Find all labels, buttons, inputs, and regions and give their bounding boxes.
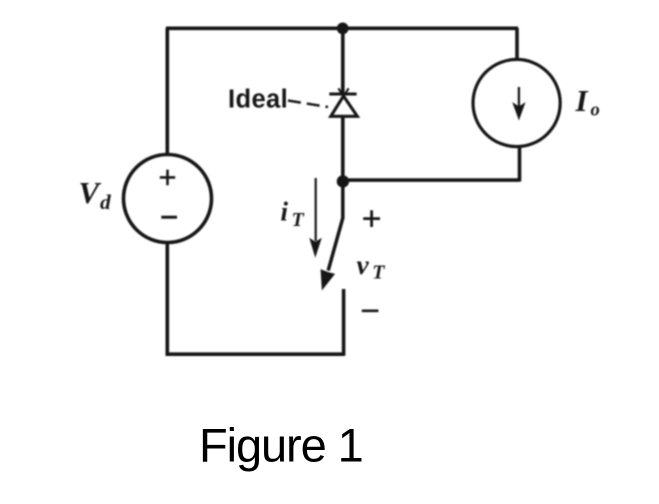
svg-text:T: T (372, 261, 385, 283)
minus sign inside V_d (161, 216, 177, 219)
wire left vertical upper (166, 28, 170, 156)
node junction dot middle (337, 175, 349, 187)
leader dashes from Ideal label to diode (288, 101, 328, 108)
svg-text:Figure 1: Figure 1 (199, 419, 363, 472)
svg-text:o: o (591, 101, 600, 121)
minus sign for v_T (362, 309, 379, 312)
svg-text:d: d (100, 190, 112, 214)
wire current source lower lead (518, 147, 522, 182)
wire top horizontal (166, 26, 518, 30)
i_T current arrow (310, 178, 320, 256)
current source I_o circle (473, 59, 560, 146)
svg-text:V: V (79, 175, 102, 210)
diode D1 triangle (331, 96, 358, 116)
diode D1 cathode bar (329, 93, 356, 96)
wire diode branch upper (341, 28, 345, 93)
switch blade with arrow (328, 185, 343, 271)
switch blade arrowhead (321, 270, 334, 289)
svg-text:i: i (281, 197, 289, 227)
wire left vertical lower (166, 241, 170, 356)
plus sign for v_T (363, 210, 380, 227)
svg-text:Ideal: Ideal (228, 86, 288, 114)
plus sign inside V_d (160, 170, 175, 186)
wire current source upper lead (515, 28, 519, 60)
svg-text:v: v (357, 249, 370, 280)
svg-text:I: I (575, 83, 589, 118)
node junction dot top (337, 23, 349, 35)
svg-text:T: T (292, 209, 305, 231)
wire middle node to current source (343, 178, 520, 182)
arrow inside current source (514, 87, 525, 118)
wire bottom horizontal (166, 352, 346, 356)
voltage source V_d circle (124, 155, 212, 243)
switch lower contact wire (342, 289, 346, 356)
wire diode to middle node (341, 117, 345, 181)
diode apex cross ticks (338, 88, 348, 96)
